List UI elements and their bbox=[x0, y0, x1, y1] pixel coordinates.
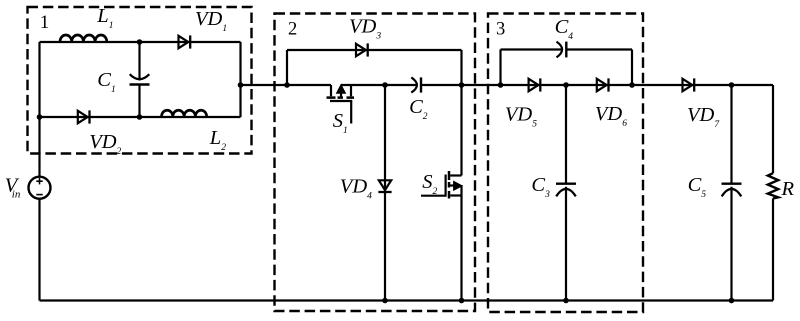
capacitor C3 bbox=[556, 184, 576, 197]
dashed box 1 bbox=[28, 7, 252, 154]
svg-text:VD4: VD4 bbox=[340, 176, 372, 202]
capacitor C4 bbox=[557, 42, 567, 58]
wire: VD3 bypass left vertical bbox=[286, 50, 288, 85]
svg-text:VD3: VD3 bbox=[349, 15, 381, 41]
transistor S1 bbox=[327, 85, 355, 124]
diode VD1 bbox=[179, 35, 191, 48]
diode VD5 bbox=[529, 78, 541, 91]
wire: main bus C2 to right bbox=[421, 84, 773, 86]
wire: main bus S1 to C2 bbox=[341, 84, 417, 86]
wire: C4 bypass right vertical bbox=[631, 50, 633, 86]
wire: left vertical below source bbox=[38, 199, 40, 301]
node: C3 bottom junction bbox=[563, 298, 569, 304]
svg-text:C4: C4 bbox=[555, 16, 574, 42]
node: C5 bottom junction bbox=[729, 298, 735, 304]
node: box1 bottom junction bbox=[137, 114, 143, 120]
wire: C4 bypass top left bbox=[501, 48, 563, 50]
svg-text:L2: L2 bbox=[209, 127, 226, 153]
wire: right vertical above R bbox=[772, 85, 774, 173]
inductor L1 bbox=[60, 35, 107, 42]
wire: VD4 column bbox=[384, 85, 386, 301]
node: C3 top junction bbox=[563, 82, 569, 88]
capacitor C2 bbox=[411, 77, 421, 92]
node: C4 right junction bbox=[629, 82, 635, 88]
wire: box1 right vertical bbox=[239, 42, 241, 117]
diode VD4 bbox=[378, 180, 391, 192]
wire: S2 column upper bbox=[460, 85, 462, 176]
resistor R bbox=[768, 173, 778, 198]
node: C4 left junction bbox=[498, 82, 504, 88]
svg-text:C3: C3 bbox=[531, 174, 550, 200]
capacitor C1 bbox=[130, 42, 150, 117]
node: box1 left bottom junction bbox=[37, 114, 43, 120]
svg-text:VD5: VD5 bbox=[505, 104, 537, 130]
svg-text:Vin: Vin bbox=[5, 174, 21, 200]
wire: right vertical below R bbox=[772, 198, 774, 300]
svg-text:VD6: VD6 bbox=[595, 103, 627, 129]
inductor L2 bbox=[162, 110, 207, 117]
wire: C3 column lower bbox=[565, 187, 567, 301]
wire: C5 column upper bbox=[730, 85, 732, 184]
svg-text:S2: S2 bbox=[422, 171, 437, 197]
svg-text:C1: C1 bbox=[97, 69, 115, 95]
dashed box 3 bbox=[488, 14, 643, 313]
wire: VD3 bypass top bbox=[287, 49, 462, 51]
wire: S2 column lower bbox=[460, 185, 462, 300]
svg-text:R: R bbox=[781, 178, 795, 200]
wire: main bus from box1 to S1 bbox=[241, 84, 332, 86]
svg-text:2: 2 bbox=[288, 20, 297, 40]
wire: left vertical from box1 to source bbox=[38, 42, 40, 177]
svg-text:VD1: VD1 bbox=[195, 8, 227, 34]
diode VD6 bbox=[597, 78, 609, 91]
source Vin bbox=[29, 177, 51, 199]
wire: C3 column upper bbox=[565, 85, 567, 184]
diode VD7 bbox=[683, 78, 695, 91]
node: box1 top junction bbox=[137, 39, 143, 45]
capacitor C5 bbox=[722, 184, 742, 197]
wire: C4 bypass top right bbox=[566, 48, 632, 50]
wire: C5 column lower bbox=[730, 187, 732, 301]
diode VD3 bbox=[356, 43, 368, 56]
node: VD3 left junction bbox=[284, 82, 290, 88]
svg-text:C5: C5 bbox=[688, 174, 707, 200]
node: VD4 top junction bbox=[382, 82, 388, 88]
wire: C4 bypass left vertical bbox=[499, 50, 501, 86]
node: C5 top junction bbox=[729, 82, 735, 88]
diode VD2 bbox=[78, 110, 90, 123]
wire: bottom rail bbox=[40, 299, 774, 301]
wire: box1 top rail bbox=[40, 41, 241, 43]
node: VD4 bottom junction bbox=[382, 298, 388, 304]
transistor S2 bbox=[421, 171, 462, 199]
wire: VD3 bypass right vertical bbox=[460, 50, 462, 85]
svg-text:S1: S1 bbox=[333, 110, 348, 136]
wire: box1 bottom rail bbox=[40, 116, 241, 118]
svg-text:VD7: VD7 bbox=[687, 104, 720, 130]
node: box1 output junction bbox=[238, 82, 244, 88]
svg-text:1: 1 bbox=[40, 12, 50, 33]
dashed box 2 bbox=[275, 14, 476, 312]
svg-text:C2: C2 bbox=[409, 96, 428, 122]
svg-text:L1: L1 bbox=[96, 5, 113, 31]
svg-text:3: 3 bbox=[496, 19, 505, 39]
node: S2 bottom junction bbox=[459, 298, 465, 304]
node: S2 top junction bbox=[459, 82, 465, 88]
